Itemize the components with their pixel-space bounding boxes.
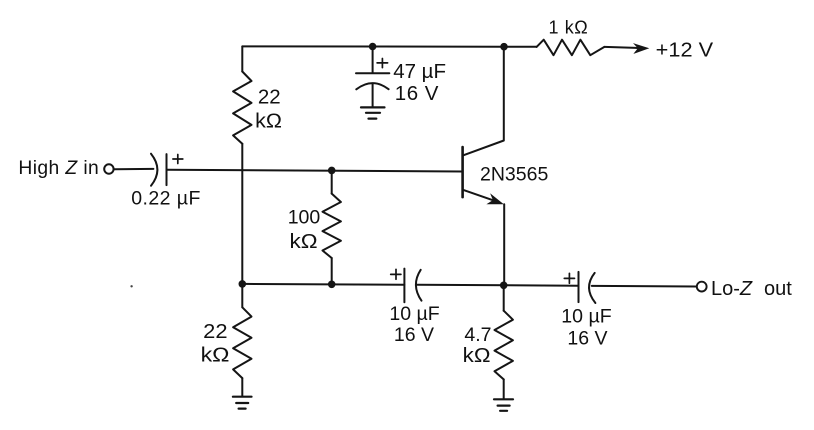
svg-text:16 V: 16 V (394, 324, 434, 346)
svg-text:100: 100 (288, 207, 321, 229)
svg-text:out: out (764, 278, 792, 300)
svg-text:kΩ: kΩ (290, 230, 318, 253)
svg-text:+12 V: +12 V (656, 39, 714, 62)
svg-text:4.7: 4.7 (464, 324, 491, 346)
svg-text:22: 22 (203, 320, 227, 343)
svg-text:kΩ: kΩ (201, 343, 230, 366)
svg-text:47 µF: 47 µF (393, 60, 446, 83)
svg-text:kΩ: kΩ (255, 110, 282, 133)
svg-text:22: 22 (258, 86, 281, 109)
svg-text:0.22 µF: 0.22 µF (131, 187, 201, 209)
svg-text:kΩ: kΩ (463, 344, 491, 367)
svg-text:10 µF: 10 µF (389, 303, 439, 325)
svg-text:1 kΩ: 1 kΩ (549, 17, 589, 37)
svg-text:16 V: 16 V (567, 328, 607, 350)
svg-text:High Z in: High Z in (18, 158, 99, 179)
svg-text:16 V: 16 V (395, 82, 439, 105)
svg-text:Lo-Z: Lo-Z (711, 278, 753, 300)
svg-text:2N3565: 2N3565 (480, 163, 548, 185)
svg-text:10 µF: 10 µF (561, 305, 611, 327)
